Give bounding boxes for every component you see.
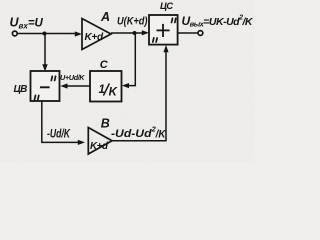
svg-text:U+Ud/K: U+Ud/K bbox=[60, 73, 85, 82]
svg-text:U(K+d): U(K+d) bbox=[117, 16, 148, 28]
svg-text:K+d: K+d bbox=[85, 32, 104, 43]
svg-text:K: K bbox=[109, 86, 118, 98]
svg-text:ЦС: ЦС bbox=[160, 1, 173, 12]
quote mark top-right of summer bbox=[172, 18, 173, 22]
1/K box C bbox=[90, 71, 122, 102]
quote mark top-right of subtractor bbox=[51, 76, 52, 80]
arrow into amplifier A bbox=[75, 31, 82, 36]
amplifier B triangle bbox=[88, 128, 112, 155]
quote mark bottom-left of subtractor bbox=[35, 95, 36, 99]
arrow into summer left bbox=[142, 30, 149, 35]
node junction on A output bbox=[133, 31, 137, 35]
plus sign in summer bbox=[157, 29, 170, 31]
summer box ЦС bbox=[149, 15, 178, 45]
svg-text:А: А bbox=[100, 10, 110, 24]
arrow from below into summer bbox=[165, 51, 167, 141]
svg-text:-Ud-Ud: -Ud-Ud bbox=[111, 128, 153, 140]
quote mark bottom-left of summer bbox=[153, 38, 154, 42]
wire subtractor output down and right to amplifier B bbox=[42, 101, 79, 142]
svg-text:ЦВ: ЦВ bbox=[14, 84, 28, 95]
wire 1/K output to subtractor bbox=[66, 85, 90, 87]
input terminal Uвх bbox=[12, 31, 17, 36]
svg-text:/K: /K bbox=[155, 128, 167, 140]
svg-text:-Ud/K: -Ud/K bbox=[47, 126, 71, 140]
wire summer output bbox=[178, 32, 198, 34]
svg-text:В: В bbox=[101, 117, 110, 131]
svg-text:K+d: K+d bbox=[90, 141, 109, 152]
wire A output to summer bbox=[111, 32, 145, 34]
wire B output to riser bbox=[112, 140, 167, 142]
svg-text:С: С bbox=[100, 59, 109, 71]
subtractor box ЦВ bbox=[31, 71, 60, 101]
wire input to amplifier A bbox=[17, 33, 77, 35]
node junction on input wire bbox=[43, 32, 47, 36]
output terminal Uвых bbox=[198, 31, 203, 36]
wire junction down to subtractor bbox=[44, 34, 46, 67]
minus sign in subtractor bbox=[40, 86, 50, 88]
wire junction down to 1/K box bbox=[127, 33, 135, 86]
amplifier A triangle bbox=[82, 19, 111, 50]
